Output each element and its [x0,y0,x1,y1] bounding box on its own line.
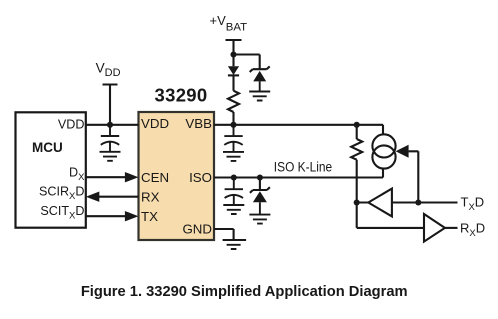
svg-text:GND: GND [182,222,212,237]
svg-text:33290: 33290 [155,85,208,106]
svg-text:TX: TX [141,209,158,224]
svg-text:VDD: VDD [141,116,169,131]
svg-text:ISO K-Line: ISO K-Line [274,159,332,175]
svg-text:RX: RX [141,189,160,204]
svg-text:ISO: ISO [189,170,212,185]
svg-text:MCU: MCU [32,140,63,155]
svg-text:CEN: CEN [141,170,169,185]
svg-text:Figure 1. 33290 Simplified App: Figure 1. 33290 Simplified Application D… [81,284,408,300]
svg-text:VBB: VBB [185,116,212,131]
svg-text:VDD: VDD [58,118,85,132]
